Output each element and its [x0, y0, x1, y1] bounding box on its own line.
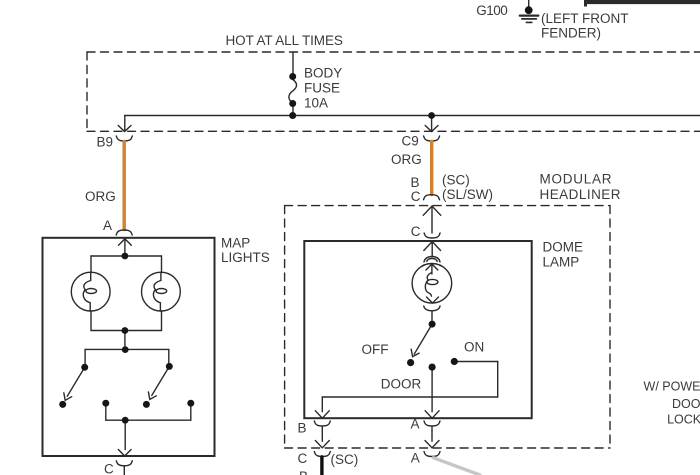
svg-text:FUSE: FUSE: [304, 81, 340, 96]
svg-text:(SC): (SC): [331, 452, 359, 467]
svg-text:LAMP: LAMP: [543, 255, 580, 270]
svg-text:A: A: [411, 451, 420, 466]
svg-text:DOOR: DOOR: [381, 377, 422, 392]
svg-text:FENDER): FENDER): [541, 26, 601, 41]
svg-text:C: C: [104, 462, 114, 475]
svg-text:HEADLINER: HEADLINER: [540, 187, 621, 202]
svg-text:ORG: ORG: [85, 189, 116, 204]
svg-text:C: C: [411, 189, 421, 204]
svg-text:MODULAR: MODULAR: [540, 172, 612, 187]
svg-text:DOME: DOME: [543, 240, 584, 255]
svg-text:OFF: OFF: [362, 342, 389, 357]
svg-text:LIGHTS: LIGHTS: [221, 250, 270, 265]
svg-text:B: B: [411, 175, 420, 190]
svg-text:W/ POWER: W/ POWER: [644, 380, 700, 394]
svg-text:C: C: [298, 451, 308, 466]
svg-text:A: A: [411, 417, 420, 432]
svg-text:(SL/SW): (SL/SW): [442, 187, 493, 202]
svg-text:ON: ON: [464, 340, 484, 355]
svg-text:BODY: BODY: [304, 66, 342, 81]
svg-text:B: B: [298, 421, 307, 436]
svg-text:ORG: ORG: [391, 152, 422, 167]
svg-text:DOOR: DOOR: [672, 397, 700, 411]
svg-text:B9: B9: [97, 135, 114, 150]
svg-text:C: C: [411, 224, 421, 239]
svg-text:HOT AT ALL TIMES: HOT AT ALL TIMES: [226, 33, 343, 48]
svg-text:(LEFT FRONT: (LEFT FRONT: [541, 11, 629, 26]
svg-text:(SC): (SC): [442, 173, 470, 188]
svg-text:B: B: [299, 469, 308, 475]
svg-text:LOCKS: LOCKS: [667, 413, 700, 427]
svg-text:MAP: MAP: [221, 236, 250, 251]
svg-text:G100: G100: [476, 3, 508, 18]
svg-text:10A: 10A: [304, 96, 328, 111]
svg-text:C9: C9: [402, 134, 419, 149]
svg-text:A: A: [103, 218, 112, 233]
